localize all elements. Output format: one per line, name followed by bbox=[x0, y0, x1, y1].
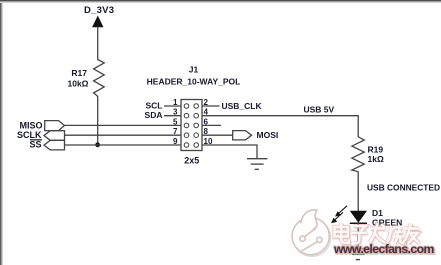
svg-text:MOSI: MOSI bbox=[257, 130, 279, 140]
svg-text:HEADER_10-WAY_POL: HEADER_10-WAY_POL bbox=[147, 77, 241, 87]
wire SCLK to pin 7 bbox=[65, 134, 182, 136]
svg-text:SCLK: SCLK bbox=[17, 130, 42, 140]
wire D_3V3 to R17 bbox=[97, 27, 99, 61]
svg-text:R19: R19 bbox=[368, 145, 384, 155]
net flag SCLK bbox=[17, 130, 65, 140]
power symbol D_3V3 bbox=[84, 5, 114, 27]
watermark char 电 bbox=[335, 223, 351, 244]
watermark char 子 bbox=[352, 226, 369, 244]
net flag SS (active low) bbox=[29, 140, 64, 150]
wire SDA to pin 3 bbox=[164, 115, 181, 117]
ground symbol (J1 pin 10) bbox=[247, 159, 267, 170]
pin circles bbox=[184, 104, 198, 148]
net flag MOSI bbox=[233, 130, 279, 140]
svg-text:www.elecfans.com: www.elecfans.com bbox=[333, 242, 435, 256]
wire pin 6 stub bbox=[202, 124, 221, 126]
wire SCL to pin 1 bbox=[164, 105, 181, 107]
svg-text:J1: J1 bbox=[189, 65, 199, 75]
net flag MISO bbox=[19, 121, 64, 131]
resistor R19 bbox=[352, 137, 384, 172]
wire R19 to LED bbox=[357, 171, 359, 211]
svg-text:1kΩ: 1kΩ bbox=[368, 154, 384, 164]
wire LED to ground bbox=[357, 223, 359, 249]
overbar of SS bbox=[30, 139, 42, 141]
svg-text:R17: R17 bbox=[71, 68, 87, 78]
svg-text:MISO: MISO bbox=[19, 121, 42, 131]
svg-text:USB_CLK: USB_CLK bbox=[222, 101, 263, 111]
svg-text:USB 5V: USB 5V bbox=[304, 105, 335, 115]
watermark logo circle bbox=[292, 210, 331, 256]
svg-text:10kΩ: 10kΩ bbox=[68, 79, 89, 89]
svg-text:SCL: SCL bbox=[146, 101, 163, 111]
watermark char 烧 bbox=[387, 226, 406, 245]
svg-text:D_3V3: D_3V3 bbox=[84, 5, 114, 16]
wire R17 to SS net bbox=[97, 96, 99, 145]
wire pin 8 to MOSI flag bbox=[202, 134, 233, 136]
svg-text:USB CONNECTED: USB CONNECTED bbox=[367, 183, 440, 193]
LED arrow 2 bbox=[334, 212, 344, 221]
junction dot on SS net bbox=[95, 142, 100, 147]
svg-text:SS: SS bbox=[29, 140, 41, 150]
LED arrow 1 bbox=[338, 206, 348, 215]
wire MISO to pin 5 bbox=[65, 124, 182, 126]
wire SS to pin 9 bbox=[65, 144, 182, 146]
svg-text:2x5: 2x5 bbox=[184, 155, 199, 165]
wire pin 2 stub bbox=[202, 105, 220, 107]
watermark url www.elecfans.com bbox=[333, 242, 436, 257]
svg-text:D1: D1 bbox=[372, 208, 383, 218]
resistor R17 bbox=[68, 60, 105, 97]
svg-text:SDA: SDA bbox=[145, 110, 163, 120]
wire pin 10 to ground bbox=[202, 145, 257, 159]
ground symbol (LED cathode) bbox=[348, 249, 368, 260]
watermark char 发 bbox=[370, 223, 387, 244]
LED D1 bbox=[331, 206, 402, 228]
watermark char 友 bbox=[403, 224, 421, 245]
connector J1 bbox=[147, 65, 241, 166]
connector body bbox=[181, 100, 202, 151]
wire pin 4 to USB 5V net bbox=[202, 116, 358, 137]
